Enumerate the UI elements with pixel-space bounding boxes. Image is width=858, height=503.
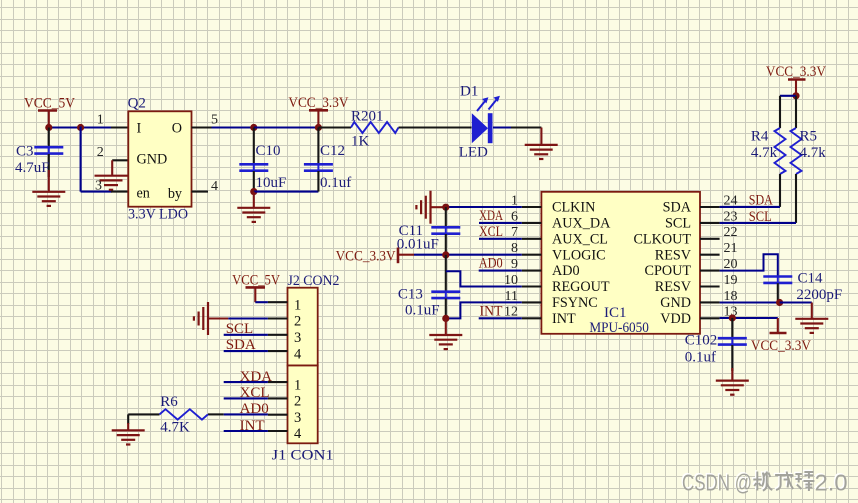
capacitor C10	[239, 128, 286, 192]
Q2 pin 3 stub	[95, 179, 128, 194]
rotated ground at J2 pin 2	[194, 302, 228, 335]
voltage regulator U Q2 3.3V LDO	[128, 96, 192, 223]
svg-text:19: 19	[724, 273, 738, 288]
svg-text:SDA: SDA	[749, 193, 773, 209]
wire R6 to ground	[127, 414, 129, 430]
svg-text:21: 21	[724, 241, 738, 256]
junction at VDD / C102	[729, 314, 736, 321]
svg-text:4.7k: 4.7k	[800, 145, 827, 161]
net label XCL wire pin 7	[479, 224, 522, 240]
svg-text:VCC_3.3V: VCC_3.3V	[766, 64, 826, 80]
svg-text:3: 3	[294, 410, 301, 426]
svg-text:O: O	[172, 121, 182, 137]
svg-text:REGOUT: REGOUT	[552, 279, 610, 295]
svg-text:D1: D1	[460, 83, 478, 99]
IC1 right pin 18 stub	[700, 289, 738, 304]
J2 pin 1 stub	[268, 301, 288, 303]
svg-text:XCL: XCL	[240, 385, 270, 401]
wire C11 node to REGOUT jog	[446, 255, 522, 292]
wire VCC_5V rail to Q2 pin 1	[49, 126, 111, 128]
svg-text:4.7uF: 4.7uF	[15, 160, 50, 176]
junction above C11	[442, 204, 449, 211]
IC1 right pin 20 stub	[700, 257, 738, 272]
resistor R4 4.7k	[751, 128, 786, 174]
svg-text:R4: R4	[751, 129, 769, 145]
svg-text:C12: C12	[320, 143, 345, 159]
svg-text:SCL: SCL	[749, 209, 772, 225]
IC1 left pin 8 stub	[511, 241, 541, 256]
svg-text:1K: 1K	[351, 134, 370, 150]
svg-text:I: I	[137, 121, 142, 137]
J1 pin 1 stub	[268, 381, 288, 383]
J1 pin 4 stub	[268, 430, 288, 432]
wire VDD row	[720, 317, 778, 319]
svg-text:4.7K: 4.7K	[160, 419, 190, 435]
svg-text:0.1uF: 0.1uF	[405, 303, 440, 319]
IC1 right pin 13 stub	[700, 305, 738, 320]
svg-text:AUX_CL: AUX_CL	[552, 231, 608, 247]
ground right of LED	[525, 145, 558, 159]
svg-text:en: en	[137, 186, 150, 202]
IC1 right pin 24 stub	[700, 193, 738, 208]
IC1 right pin 21 stub	[700, 241, 738, 256]
svg-text:VDD: VDD	[660, 311, 691, 327]
svg-text:RESV: RESV	[655, 247, 692, 263]
svg-text:GND: GND	[660, 295, 691, 311]
svg-text:VCC_5V: VCC_5V	[24, 96, 75, 112]
power port VCC_3.3V at VLOGIC	[336, 248, 414, 265]
net label SCL wire pin 23	[720, 209, 796, 225]
svg-text:1: 1	[294, 377, 301, 393]
svg-text:VCC_3.3V: VCC_3.3V	[751, 338, 811, 354]
svg-text:3: 3	[95, 179, 102, 194]
power port VCC_3.3V at VDD (down)	[751, 318, 811, 354]
wire C3 to ground	[48, 170, 50, 192]
wire R201 to D1 anode	[399, 126, 472, 128]
junction at R5 top	[792, 92, 799, 99]
junction at C12 / VCC_3.3V	[315, 124, 322, 131]
svg-text:MPU-6050: MPU-6050	[589, 320, 649, 336]
wire VCC node to R201	[318, 126, 351, 128]
wire C10 bottom to C12 bottom	[254, 191, 319, 193]
svg-text:INT: INT	[552, 311, 576, 327]
net label SDA wire J2 pin 4	[224, 337, 268, 353]
IC1 left pin 9 stub	[511, 257, 541, 272]
wire C10 node to ground	[253, 192, 255, 208]
svg-text:INT: INT	[480, 304, 503, 320]
svg-text:C13: C13	[398, 287, 423, 303]
svg-text:GND: GND	[137, 151, 168, 167]
resistor R201 1K	[351, 108, 399, 149]
svg-text:by: by	[168, 186, 183, 202]
junction at VCC_5V / C3	[45, 124, 52, 131]
IC1 right pin 22 stub	[700, 225, 738, 240]
ground below C102	[716, 381, 749, 395]
svg-text:AD0: AD0	[552, 263, 580, 279]
Q2 pin 1 stub	[97, 113, 129, 128]
svg-text:AD0: AD0	[479, 256, 503, 272]
wire CPOUT to C14	[720, 254, 778, 276]
junction at GND row	[776, 299, 783, 306]
svg-text:C10: C10	[256, 143, 281, 159]
wire VLOGIC row	[414, 254, 522, 256]
junction node A	[77, 124, 84, 131]
svg-text:10uF: 10uF	[256, 175, 287, 191]
svg-text:C102: C102	[685, 332, 718, 348]
svg-text:2: 2	[294, 394, 301, 410]
power port VCC_3.3V at regulator output	[288, 95, 348, 127]
svg-text:XDA: XDA	[479, 208, 503, 224]
net label SCL wire J2 pin 3	[224, 321, 268, 337]
Q2 pin 4 stub	[192, 179, 219, 194]
capacitor C102	[685, 318, 747, 371]
wire R5 to SCL net	[795, 174, 797, 223]
svg-text:1: 1	[294, 297, 301, 313]
wire C13 node to ground	[445, 318, 447, 334]
resistor R5 4.7k	[791, 96, 827, 174]
net label AD0 wire J1 pin 3	[208, 401, 269, 417]
svg-text:J2 CON2: J2 CON2	[288, 273, 340, 289]
wire D1 cathode to ground	[493, 128, 541, 145]
net label INT wire pin 12	[479, 304, 522, 320]
wire GND row to ground	[780, 303, 812, 319]
J1 pin 2 stub	[268, 397, 288, 399]
svg-text:4: 4	[294, 426, 302, 442]
svg-text:3: 3	[294, 330, 301, 346]
svg-text:INT: INT	[240, 418, 265, 434]
svg-text:R5: R5	[800, 129, 818, 145]
svg-text:VLOGIC: VLOGIC	[552, 247, 606, 263]
op-amp IC U1 MPU-6050 body	[541, 192, 700, 336]
LED D1	[459, 83, 500, 160]
svg-text:SCL: SCL	[226, 321, 254, 337]
svg-text:4: 4	[294, 346, 302, 362]
svg-text:SDA: SDA	[663, 200, 692, 216]
svg-text:2.0: 2.0	[815, 470, 848, 496]
capacitor C11	[397, 207, 461, 255]
svg-text:XDA: XDA	[240, 369, 273, 385]
J1 pin 3 stub	[268, 414, 288, 416]
connector J1 CON1 body	[272, 366, 334, 464]
svg-text:CSDN @: CSDN @	[682, 470, 752, 496]
ground at Q2 pin 2	[95, 176, 128, 190]
IC1 right pin 19 stub	[700, 273, 738, 288]
IC1 right pin 23 stub	[700, 209, 738, 224]
svg-text:C3: C3	[16, 143, 34, 159]
wire ground to J2 pin 2	[228, 317, 268, 319]
net label XDA wire J1 pin 1	[224, 369, 273, 385]
IC1 left pin 11 stub	[505, 289, 542, 304]
svg-text:VCC_3.3V: VCC_3.3V	[288, 95, 348, 111]
svg-text:XCL: XCL	[479, 224, 503, 240]
svg-text:4.7k: 4.7k	[751, 145, 778, 161]
net label AD0 wire pin 9	[479, 256, 522, 272]
power port VCC_3.3V top right	[766, 64, 826, 96]
net label INT wire J1 pin 4	[224, 418, 268, 434]
watermark CSDN	[681, 468, 848, 495]
svg-text:IC1: IC1	[604, 305, 627, 321]
wire node A down to Q2 pin 3	[81, 127, 112, 192]
svg-text:0.1uf: 0.1uf	[685, 350, 716, 366]
J2 pin 4 stub	[268, 350, 288, 352]
svg-text:SCL: SCL	[665, 216, 691, 232]
power port VCC_5V	[24, 96, 75, 128]
ground right of C14	[795, 319, 828, 333]
IC1 left pin 12 stub	[504, 305, 541, 320]
capacitor C13	[398, 287, 460, 319]
ground below C13	[429, 335, 462, 349]
wire C10 node to C12 node	[254, 126, 319, 128]
junction at C10	[250, 124, 257, 131]
IC1 left pin 6 stub	[511, 209, 541, 224]
svg-text:0.01uF: 0.01uF	[397, 237, 439, 253]
net label XDA wire pin 6	[479, 208, 522, 224]
svg-text:Q2: Q2	[128, 96, 146, 112]
svg-text:RESV: RESV	[655, 279, 692, 295]
net label XCL wire J1 pin 2	[224, 385, 270, 401]
svg-text:2: 2	[97, 145, 104, 160]
ground below C10	[237, 208, 270, 222]
IC1 left pin 1 stub	[511, 193, 541, 208]
svg-text:CLKIN: CLKIN	[552, 200, 595, 216]
svg-text:VCC_3.3V: VCC_3.3V	[336, 248, 396, 264]
svg-text:5: 5	[211, 113, 218, 128]
svg-text:0.1uf: 0.1uf	[320, 175, 351, 191]
svg-text:R6: R6	[160, 394, 178, 410]
svg-text:J1 CON1: J1 CON1	[272, 448, 334, 464]
svg-text:4: 4	[211, 179, 218, 194]
wire C13 bottom to FSYNC jog	[446, 302, 522, 318]
Q2 pin 5 stub	[192, 113, 219, 128]
svg-text:R201: R201	[351, 108, 384, 124]
svg-text:FSYNC: FSYNC	[552, 295, 598, 311]
IC1 left pin 10 stub	[504, 273, 541, 288]
svg-text:SDA: SDA	[226, 337, 256, 353]
J2 pin 2 stub	[268, 317, 288, 319]
svg-text:VCC_5V: VCC_5V	[232, 272, 280, 288]
junction below C13	[442, 315, 449, 322]
svg-text:22: 22	[724, 225, 738, 240]
svg-text:CPOUT: CPOUT	[644, 263, 691, 279]
svg-text:1: 1	[97, 113, 104, 128]
capacitor C12	[304, 128, 351, 192]
svg-text:3.3V LDO: 3.3V LDO	[128, 207, 188, 223]
wire VCC_5V to J2 pin 1	[255, 301, 268, 303]
J2 pin 3 stub	[268, 334, 288, 336]
ground below R6	[112, 430, 145, 444]
wire R4 R5 top jog	[780, 96, 796, 128]
svg-text:CLKOUT: CLKOUT	[633, 231, 691, 247]
ground below C3	[32, 192, 65, 206]
svg-text:LED: LED	[459, 144, 488, 160]
wire R4 to SDA net	[779, 174, 781, 207]
capacitor C14	[763, 271, 842, 303]
svg-text:C14: C14	[798, 271, 824, 287]
svg-text:AUX_DA: AUX_DA	[552, 216, 611, 232]
wire CLKIN row	[446, 206, 522, 208]
svg-text:2200pF: 2200pF	[796, 287, 842, 303]
wire C102 to ground	[731, 368, 733, 380]
svg-text:2: 2	[294, 314, 301, 330]
IC1 left pin 7 stub	[511, 225, 541, 240]
capacitor C3	[15, 128, 63, 178]
junction below C11	[442, 251, 449, 258]
power port VCC_5V at J2 pin 1	[232, 272, 280, 302]
resistor R6 4.7K	[128, 394, 208, 435]
net label SDA wire pin 24	[720, 193, 780, 209]
svg-text:AD0: AD0	[240, 401, 269, 417]
wire Q2 output to VCC_3.3V node	[212, 126, 255, 128]
connector J2 CON2 body	[288, 273, 340, 365]
Q2 pin 2 stub	[97, 145, 129, 175]
rotated ground at CLKIN	[416, 191, 446, 224]
wire GND row to C14 bottom	[720, 301, 780, 303]
junction below C10	[250, 188, 257, 195]
